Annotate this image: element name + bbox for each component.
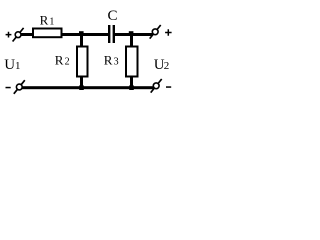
resistor R2 (77, 47, 88, 77)
wire bottom (22, 86, 154, 89)
node junction bottom right (129, 85, 134, 90)
wire R2 top lead (80, 34, 83, 47)
label U1 (4, 57, 20, 73)
wire (21, 33, 34, 36)
svg-text:U: U (4, 57, 15, 73)
svg-text:1: 1 (15, 60, 21, 72)
resistor R3 (126, 47, 138, 77)
svg-text:C: C (108, 8, 118, 24)
terminal output top (150, 25, 161, 39)
wire R2 bottom lead (80, 77, 83, 87)
svg-text:2: 2 (65, 56, 70, 67)
svg-text:3: 3 (114, 56, 119, 67)
plus sign (input polarity +) (6, 32, 12, 38)
label R2 (55, 52, 70, 67)
svg-text:R: R (104, 52, 113, 67)
label R1 (40, 12, 55, 27)
node junction top left (79, 31, 84, 36)
wire R3 bottom lead (130, 77, 133, 87)
svg-text:2: 2 (164, 60, 170, 72)
minus sign (output polarity -) (166, 86, 171, 88)
terminal output bottom (151, 79, 162, 93)
wire (115, 33, 153, 36)
node junction bottom left (79, 85, 84, 90)
svg-text:R: R (40, 12, 49, 27)
svg-text:R: R (55, 52, 64, 67)
label U2 (154, 57, 170, 73)
resistor R1 (33, 29, 62, 38)
plus sign (output polarity +) (165, 29, 172, 36)
capacitor C (108, 25, 115, 43)
minus sign (input polarity -) (6, 87, 11, 89)
label R3 (104, 52, 119, 67)
node junction top right (129, 31, 134, 36)
svg-text:1: 1 (49, 16, 54, 27)
wire R3 top lead (130, 34, 133, 47)
terminal input bottom (14, 80, 25, 94)
terminal input top (13, 28, 24, 42)
wire (61, 33, 108, 36)
